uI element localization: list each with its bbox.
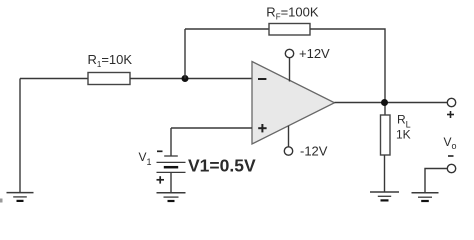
svg-text:1K: 1K bbox=[396, 128, 411, 142]
label R1=10K bbox=[88, 52, 133, 69]
resistor RF body bbox=[269, 24, 310, 36]
wire input horizontal from corner to R1 bbox=[20, 78, 88, 80]
label V1 (gray) bbox=[139, 150, 152, 167]
wire output from apex to terminal bbox=[335, 102, 448, 104]
ground G1 (input) bbox=[7, 193, 34, 201]
svg-text:+12V: +12V bbox=[299, 46, 330, 61]
wire -12V supply bbox=[288, 126, 290, 147]
battery minus polarity mark bbox=[157, 150, 163, 152]
wire RL to ground bbox=[384, 155, 386, 192]
node output junction bbox=[381, 99, 388, 106]
scan artifact left edge bbox=[0, 199, 3, 203]
svg-text:R1=10K: R1=10K bbox=[88, 52, 133, 69]
label RF=100K bbox=[266, 4, 319, 21]
ground G3 (load) bbox=[370, 192, 399, 200]
wire feedback top left segment bbox=[185, 28, 269, 30]
label V1=0.5V bbox=[188, 156, 256, 176]
battery plus polarity mark bbox=[157, 176, 165, 183]
resistor RL body bbox=[381, 115, 391, 155]
wire +12V supply bbox=[289, 58, 291, 82]
wire R1 to op-amp minus input bbox=[130, 78, 252, 80]
wire feedback top right segment bbox=[310, 29, 385, 115]
terminal Vo plus circle bbox=[447, 98, 455, 106]
wire feedback vertical left bbox=[184, 29, 186, 79]
label RL bbox=[397, 113, 411, 130]
svg-text:V1=0.5V: V1=0.5V bbox=[188, 156, 256, 176]
wire battery to ground bbox=[170, 172, 172, 192]
terminal Vo minus circle bbox=[447, 164, 455, 172]
terminal +12V circle bbox=[285, 49, 293, 57]
wire input vertical down to ground bbox=[19, 79, 21, 193]
plus output polarity mark bbox=[447, 111, 454, 118]
label -12V bbox=[300, 144, 328, 159]
op-amp plus sign bbox=[258, 124, 266, 132]
node junction at inverting input bbox=[182, 75, 189, 82]
label Vo bbox=[444, 135, 457, 151]
resistor R1 body bbox=[88, 73, 130, 85]
ground G2 (battery) bbox=[157, 193, 186, 201]
wire from minus terminal to ground bbox=[425, 169, 447, 193]
wire plus input horizontal bbox=[171, 127, 252, 129]
svg-text:-12V: -12V bbox=[300, 144, 328, 159]
terminal -12V circle bbox=[284, 147, 292, 155]
svg-text:RF=100K: RF=100K bbox=[266, 4, 319, 21]
op-amp minus sign bbox=[258, 78, 266, 80]
wire plus input vertical to battery bbox=[170, 128, 172, 156]
minus output polarity mark bbox=[448, 155, 454, 157]
label 1K bbox=[396, 128, 411, 142]
battery V1 bbox=[157, 156, 186, 172]
op-amp U1 triangle bbox=[252, 62, 335, 145]
ground G4 (output) bbox=[412, 193, 439, 201]
label +12V bbox=[299, 46, 330, 61]
